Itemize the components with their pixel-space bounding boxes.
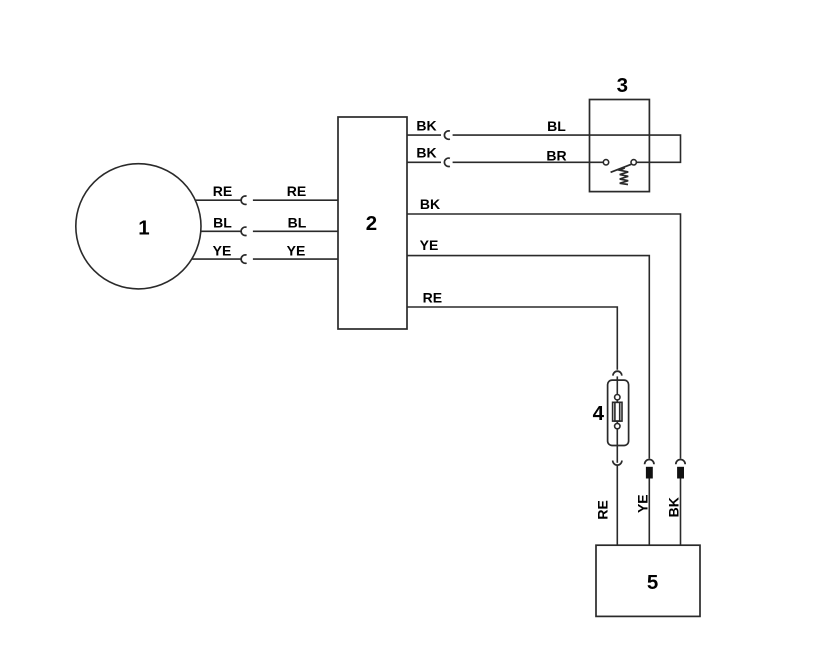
fuse inner wire bottom — [616, 429, 618, 446]
wire YE from circle 1 — [192, 258, 241, 260]
svg-text:2: 2 — [366, 212, 377, 235]
wire YE from box 2 to connector — [407, 256, 649, 459]
connector arc on BK wire — [676, 460, 685, 465]
wire BK to box 5 — [680, 479, 682, 546]
svg-text:BK: BK — [416, 117, 436, 133]
wire BL to switch loop — [453, 135, 681, 162]
wire BL from circle 1 — [201, 230, 242, 232]
svg-text:RE: RE — [423, 290, 442, 306]
connector arc above fuse 4 — [613, 371, 622, 375]
wire RE to box 5 — [616, 465, 618, 545]
fuse terminal circle bottom — [615, 423, 620, 428]
switch blade — [611, 164, 632, 172]
fuse inner wire middle top — [616, 400, 618, 402]
connector cup below fuse — [613, 461, 622, 466]
svg-text:YE: YE — [287, 243, 306, 259]
control unit box 2 — [338, 117, 407, 329]
switch contact left — [603, 160, 608, 165]
svg-text:4: 4 — [593, 402, 605, 425]
svg-text:YE: YE — [420, 237, 439, 253]
svg-text:3: 3 — [617, 74, 628, 97]
svg-text:YE: YE — [213, 243, 232, 259]
wire BK/BR stub from box 2 — [407, 161, 441, 163]
svg-text:1: 1 — [138, 217, 149, 240]
connector (YE, circle side) — [241, 255, 246, 263]
svg-text:5: 5 — [647, 571, 658, 594]
wire YE to box 5 — [648, 479, 650, 546]
svg-text:BL: BL — [213, 214, 232, 230]
svg-text:BK: BK — [416, 145, 436, 161]
wire BK from box 2 to connector — [407, 214, 681, 459]
svg-text:BL: BL — [547, 118, 566, 134]
wire YE to box 2 — [253, 258, 338, 260]
connector (BK/BL wire) — [444, 131, 449, 139]
connector sleeve YE (black) — [646, 467, 653, 479]
wire RE to box 2 — [253, 199, 338, 201]
fuse inner wire middle bottom — [616, 421, 618, 423]
fuse pin below holder — [616, 446, 618, 463]
connector arc on YE wire — [645, 460, 654, 465]
connector (BL, circle side) — [241, 227, 246, 235]
fuse holder 4 body — [608, 380, 629, 445]
wire BK/BL stub from box 2 — [407, 134, 441, 136]
fuse element outer rect — [613, 402, 622, 421]
battery box 5 — [596, 545, 700, 616]
svg-text:BR: BR — [546, 148, 566, 164]
svg-text:BK: BK — [420, 196, 440, 212]
svg-text:YE: YE — [634, 494, 650, 513]
switch box 3 — [590, 100, 650, 192]
svg-text:BL: BL — [288, 214, 307, 230]
fuse element inner rect — [615, 402, 620, 421]
fuse inner wire top — [616, 380, 618, 394]
wire BR to switch contact — [453, 161, 604, 163]
fuse pin stub into holder — [616, 376, 618, 380]
svg-text:RE: RE — [594, 500, 610, 519]
svg-text:RE: RE — [213, 183, 232, 199]
connector (BK/BR wire) — [444, 158, 449, 166]
switch contact right — [631, 160, 636, 165]
svg-text:BK: BK — [666, 497, 682, 517]
wire BL to box 2 — [253, 230, 338, 232]
svg-text:RE: RE — [287, 183, 306, 199]
generator circle 1 — [76, 164, 201, 289]
wire RE from box 2 to fuse — [407, 307, 617, 370]
fuse terminal circle top — [615, 395, 620, 400]
switch spring — [620, 168, 629, 185]
connector sleeve BK (black) — [677, 467, 684, 479]
connector (RE, circle side) — [241, 196, 246, 204]
wire RE from circle 1 — [196, 199, 242, 201]
